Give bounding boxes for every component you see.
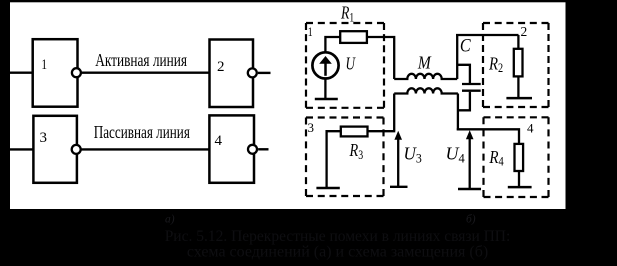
- transformer secondary coil: [394, 88, 458, 93]
- svg-text:Рис. 5.12. Перекрестные помехи: Рис. 5.12. Перекрестные помехи в линиях …: [165, 228, 511, 245]
- label R2: [488, 53, 503, 75]
- wire secondary right down: [457, 94, 459, 131]
- resistor R3: [341, 127, 368, 137]
- gate 3 (driver of passive line): [33, 116, 77, 183]
- resistor R4: [515, 144, 524, 171]
- wire R2 top lead: [517, 35, 519, 49]
- svg-text:3: 3: [40, 130, 48, 146]
- label Пассивная линия: [94, 123, 190, 142]
- wire R2 bottom lead: [517, 76, 519, 97]
- svg-text:2: 2: [521, 24, 528, 39]
- arrow U4: [458, 130, 481, 189]
- wire passive line: [80, 148, 210, 150]
- current source U: [312, 52, 338, 78]
- wire R3 to bottom-left node: [367, 130, 395, 132]
- arrow U3: [390, 131, 408, 187]
- label M: [417, 52, 432, 72]
- svg-text:1: 1: [41, 55, 47, 72]
- inverter bubble gate 1: [72, 68, 81, 77]
- ground of R2: [506, 97, 532, 100]
- svg-text:б): б): [466, 214, 476, 226]
- label C: [460, 34, 471, 56]
- dashed box 3 (driver side of passive line): [306, 118, 384, 197]
- label U4: [446, 144, 466, 166]
- label Активная линия: [95, 51, 187, 70]
- resistor R2: [514, 49, 523, 77]
- svg-text:3: 3: [308, 120, 315, 135]
- gate 2 (receiver of active line): [210, 40, 254, 108]
- wire output of gate 4: [258, 148, 268, 150]
- wire jog to capacitor top: [457, 65, 470, 83]
- ground of R3: [316, 187, 339, 190]
- inverter bubble gate 4: [248, 145, 257, 154]
- svg-text:U: U: [346, 55, 357, 74]
- ground of source: [315, 79, 338, 100]
- wire output of gate 2: [258, 72, 271, 74]
- label R1: [340, 4, 354, 25]
- wire bottom node to R4: [457, 129, 519, 144]
- wire top node to R2: [456, 34, 519, 36]
- transformer primary coil: [394, 74, 457, 79]
- inverter bubble gate 3: [72, 145, 81, 154]
- gate 4 (receiver of passive line): [209, 115, 254, 182]
- label U: [346, 55, 357, 74]
- svg-text:M: M: [417, 52, 432, 72]
- capacitor C: [462, 84, 481, 91]
- svg-text:Пассивная линия: Пассивная линия: [94, 123, 190, 142]
- svg-text:схема соединений (а) и схема з: схема соединений (а) и схема замещения (…: [187, 244, 488, 261]
- resistor R1: [340, 31, 367, 43]
- label R4: [488, 147, 503, 169]
- dashed box 1 (driver side of active line): [306, 23, 384, 108]
- wire secondary left down: [393, 94, 395, 131]
- figure background panel: [10, 2, 566, 209]
- wire active line: [80, 71, 211, 73]
- svg-text:1: 1: [308, 26, 313, 40]
- wire R3 left lead: [327, 131, 341, 187]
- gate 1 (driver of active line): [33, 39, 78, 107]
- wire R4 bottom lead: [518, 171, 520, 186]
- wire input to gate 1: [10, 71, 34, 73]
- label U3: [404, 143, 422, 165]
- ground of R4: [508, 186, 532, 189]
- wire capacitor bottom jog: [458, 92, 470, 111]
- dashed box 2 (receiver of active line): [483, 23, 549, 107]
- wire input to gate 3: [10, 148, 34, 150]
- svg-text:4: 4: [215, 133, 223, 149]
- label R3: [349, 141, 364, 163]
- inverter bubble gate 2: [248, 68, 257, 77]
- wire primary right to top node: [456, 35, 458, 79]
- svg-text:а): а): [165, 214, 175, 226]
- dashed box 4 (receiver of passive line): [484, 117, 549, 197]
- svg-text:2: 2: [217, 59, 225, 75]
- wire source top to R1: [325, 37, 340, 52]
- svg-text:4: 4: [527, 121, 534, 136]
- svg-text:C: C: [460, 34, 471, 56]
- wire R1 to primary coil: [367, 37, 395, 79]
- svg-text:Активная линия: Активная линия: [95, 51, 187, 70]
